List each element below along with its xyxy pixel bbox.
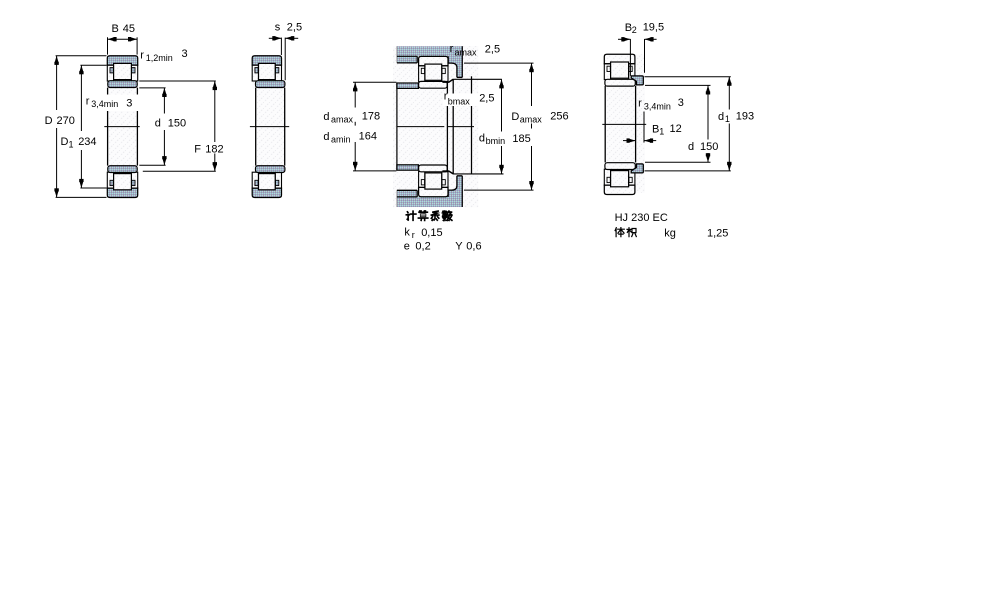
svg-text:HJ 230 EC: HJ 230 EC bbox=[615, 212, 668, 224]
svg-text:1: 1 bbox=[659, 127, 664, 137]
svg-text:3,4min: 3,4min bbox=[91, 99, 118, 109]
svg-text:1: 1 bbox=[725, 114, 730, 124]
svg-text:3: 3 bbox=[182, 48, 188, 60]
svg-text:d: d bbox=[323, 131, 329, 143]
svg-text:kg: kg bbox=[664, 228, 676, 240]
svg-text:19,5: 19,5 bbox=[643, 22, 664, 34]
svg-text:d: d bbox=[155, 118, 161, 130]
svg-text:0,6: 0,6 bbox=[466, 241, 481, 253]
svg-text:bmin: bmin bbox=[486, 136, 506, 146]
svg-text:234: 234 bbox=[78, 136, 96, 148]
svg-text:k: k bbox=[404, 227, 410, 239]
svg-text:amax: amax bbox=[520, 114, 543, 124]
svg-text:1,2min: 1,2min bbox=[146, 53, 173, 63]
svg-text:193: 193 bbox=[736, 111, 754, 123]
svg-text:12: 12 bbox=[670, 123, 682, 135]
svg-text:0,15: 0,15 bbox=[421, 227, 442, 239]
svg-text:45: 45 bbox=[123, 23, 135, 35]
svg-text:3,4min: 3,4min bbox=[644, 102, 671, 112]
svg-text:1,25: 1,25 bbox=[707, 228, 728, 240]
svg-text:2,5: 2,5 bbox=[479, 92, 494, 104]
svg-text:178: 178 bbox=[362, 111, 380, 123]
svg-text:150: 150 bbox=[700, 141, 718, 153]
svg-text:150: 150 bbox=[168, 118, 186, 130]
svg-text:D: D bbox=[45, 115, 53, 127]
svg-text:d: d bbox=[479, 132, 485, 144]
svg-text:F: F bbox=[194, 143, 201, 155]
svg-text:270: 270 bbox=[57, 115, 75, 127]
svg-text:B: B bbox=[112, 23, 119, 35]
svg-text:2,5: 2,5 bbox=[485, 44, 500, 56]
svg-text:D: D bbox=[511, 111, 519, 123]
svg-text:2: 2 bbox=[632, 25, 637, 35]
svg-text:r: r bbox=[638, 97, 642, 109]
svg-text:256: 256 bbox=[550, 111, 568, 123]
svg-text:amin: amin bbox=[331, 134, 351, 144]
svg-text:1: 1 bbox=[69, 140, 74, 150]
svg-text:r: r bbox=[412, 230, 415, 240]
svg-text:3: 3 bbox=[126, 98, 132, 110]
svg-text:bmax: bmax bbox=[448, 97, 471, 107]
svg-text:185: 185 bbox=[512, 133, 530, 145]
svg-text:Y: Y bbox=[455, 241, 463, 253]
svg-text:r: r bbox=[450, 43, 454, 55]
svg-text:s: s bbox=[275, 21, 281, 33]
svg-text:e: e bbox=[404, 241, 410, 253]
svg-text:164: 164 bbox=[359, 131, 377, 143]
svg-text:182: 182 bbox=[205, 143, 223, 155]
svg-text:d: d bbox=[688, 141, 694, 153]
svg-text:3: 3 bbox=[678, 97, 684, 109]
svg-text:d: d bbox=[718, 111, 724, 123]
svg-text:amax: amax bbox=[455, 47, 478, 57]
svg-text:2,5: 2,5 bbox=[287, 21, 302, 33]
svg-text:r: r bbox=[140, 50, 144, 62]
svg-text:r: r bbox=[86, 96, 90, 108]
svg-text:0,2: 0,2 bbox=[415, 241, 430, 253]
svg-text:amax: amax bbox=[331, 114, 354, 124]
svg-text:d: d bbox=[323, 111, 329, 123]
svg-text:D: D bbox=[61, 136, 69, 148]
